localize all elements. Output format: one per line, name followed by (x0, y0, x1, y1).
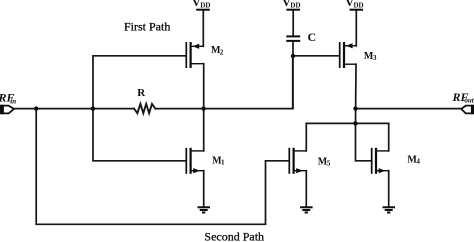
svg-text:in: in (10, 97, 16, 105)
svg-text:3: 3 (373, 54, 377, 62)
svg-text:DD: DD (290, 1, 300, 9)
svg-text:DD: DD (200, 1, 210, 9)
svg-text:R: R (137, 87, 146, 99)
svg-text:C: C (308, 30, 317, 44)
svg-text:5: 5 (327, 160, 331, 168)
svg-text:First Path: First Path (124, 20, 170, 34)
svg-text:1: 1 (221, 159, 225, 167)
svg-text:4: 4 (416, 158, 420, 166)
svg-text:DD: DD (354, 1, 364, 9)
svg-text:Second Path: Second Path (204, 229, 264, 242)
svg-text:out: out (464, 97, 474, 105)
svg-text:2: 2 (220, 48, 224, 56)
